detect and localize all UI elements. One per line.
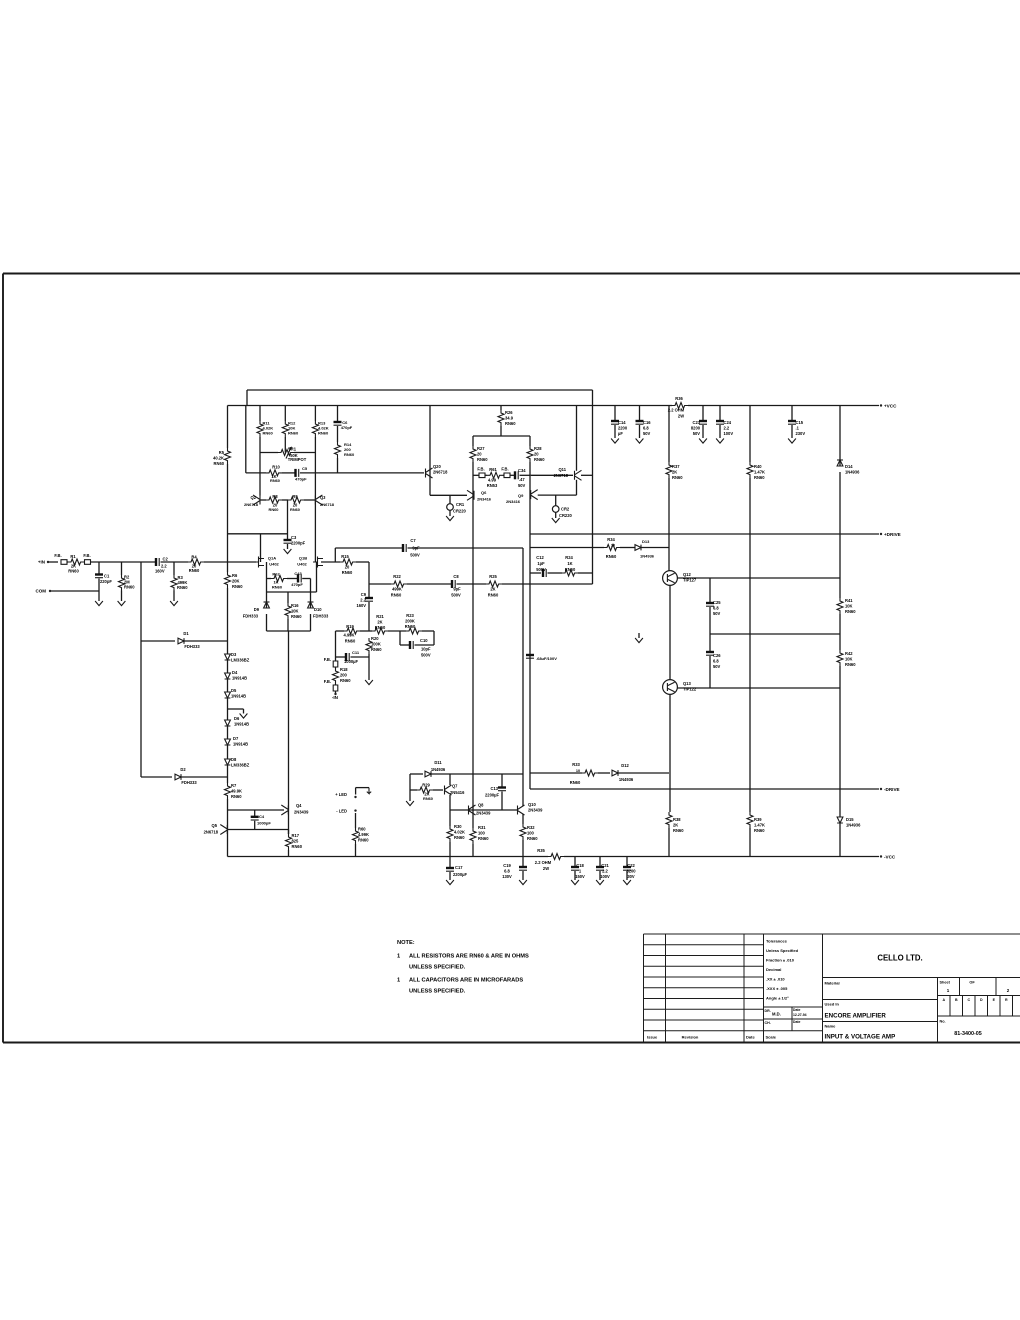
svg-text:2N6718: 2N6718	[244, 502, 259, 507]
svg-text:µF: µF	[618, 431, 623, 436]
svg-text:500V: 500V	[451, 593, 461, 598]
svg-text:RN60: RN60	[845, 609, 856, 614]
svg-text:FDH333: FDH333	[184, 644, 200, 649]
svg-text:470pF: 470pF	[341, 425, 353, 430]
svg-text:500V: 500V	[410, 553, 420, 558]
svg-text:No.: No.	[940, 1020, 946, 1024]
svg-text:2200pF: 2200pF	[291, 541, 306, 546]
svg-text:Q12: Q12	[683, 572, 691, 577]
svg-text:RN60: RN60	[124, 585, 135, 590]
svg-text:.68uF/100V: .68uF/100V	[536, 656, 557, 661]
svg-text:RN53: RN53	[487, 483, 498, 488]
svg-text:Q5: Q5	[212, 823, 218, 828]
svg-text:20: 20	[534, 452, 539, 457]
svg-text:Angle ± 1/2°: Angle ± 1/2°	[766, 996, 789, 1001]
svg-text:1N4936: 1N4936	[846, 823, 861, 828]
svg-text:D12: D12	[621, 763, 629, 768]
svg-text:8200: 8200	[626, 869, 636, 874]
svg-text:150V: 150V	[575, 874, 585, 879]
svg-text:2N6718: 2N6718	[204, 829, 219, 834]
svg-text:R6: R6	[232, 573, 238, 578]
svg-text:R28: R28	[534, 446, 542, 451]
svg-text:D5: D5	[231, 688, 237, 693]
svg-text:D13: D13	[642, 539, 650, 544]
svg-text:500V: 500V	[421, 653, 431, 658]
svg-text:C12: C12	[536, 555, 544, 560]
svg-text:RN60: RN60	[288, 430, 299, 435]
svg-text:R4: R4	[191, 555, 197, 560]
svg-text:OF: OF	[969, 981, 975, 985]
svg-text:100V: 100V	[600, 874, 610, 879]
svg-text:230V: 230V	[796, 431, 806, 436]
svg-text:R21: R21	[376, 614, 384, 619]
svg-text:-IN: -IN	[332, 695, 339, 700]
svg-text:UNLESS SPECIFIED.: UNLESS SPECIFIED.	[409, 965, 466, 971]
svg-text:+IN: +IN	[38, 560, 45, 565]
svg-text:R26: R26	[505, 410, 513, 415]
svg-text:C8: C8	[453, 574, 459, 579]
svg-text:NOTE:: NOTE:	[397, 940, 415, 946]
svg-text:FDH333: FDH333	[243, 614, 259, 619]
svg-text:RN60: RN60	[570, 780, 581, 785]
svg-text:220pF: 220pF	[100, 579, 112, 584]
svg-text:RN60: RN60	[477, 457, 488, 462]
svg-text:D1: D1	[183, 631, 189, 636]
svg-text:Material: Material	[825, 981, 840, 986]
svg-text:49.9K: 49.9K	[231, 789, 242, 794]
svg-text:2N3439: 2N3439	[528, 808, 543, 813]
svg-text:R27: R27	[477, 446, 485, 451]
svg-text:Q1B: Q1B	[299, 556, 307, 561]
svg-text:RN60: RN60	[292, 844, 303, 849]
svg-text:1N4936: 1N4936	[431, 767, 446, 772]
svg-text:1: 1	[579, 869, 582, 874]
svg-text:RN60: RN60	[478, 836, 489, 841]
svg-text:R20: R20	[371, 636, 379, 641]
svg-text:RN60: RN60	[270, 478, 280, 483]
svg-text:.1: .1	[796, 426, 800, 431]
svg-text:Date: Date	[793, 1008, 800, 1012]
svg-text:2N6718: 2N6718	[433, 470, 448, 475]
svg-text:RN60: RN60	[505, 421, 516, 426]
svg-text:1.47K: 1.47K	[754, 823, 765, 828]
svg-text:R23: R23	[406, 613, 414, 618]
svg-text:+VCC: +VCC	[884, 404, 897, 409]
svg-text:C18: C18	[576, 863, 584, 868]
svg-text:-DRIVE: -DRIVE	[884, 787, 900, 792]
svg-text:TRIMPOT: TRIMPOT	[288, 457, 307, 462]
svg-text:RN60: RN60	[269, 507, 279, 512]
svg-text:2W: 2W	[678, 414, 684, 419]
svg-text:Q6: Q6	[481, 490, 487, 495]
svg-text:R9: R9	[292, 494, 298, 499]
svg-text:2N6718: 2N6718	[554, 473, 569, 478]
svg-text:470pF: 470pF	[295, 477, 307, 482]
svg-text:R37: R37	[672, 464, 680, 469]
svg-text:R61: R61	[489, 467, 497, 472]
svg-text:FDH333: FDH333	[181, 780, 197, 785]
svg-text:C26: C26	[713, 653, 721, 658]
svg-text:6.8: 6.8	[713, 606, 719, 611]
svg-text:12-27-94: 12-27-94	[793, 1013, 807, 1017]
svg-text:200K: 200K	[405, 619, 415, 624]
svg-text:R29: R29	[422, 783, 430, 788]
svg-text:1000pF: 1000pF	[257, 820, 271, 825]
svg-text:RN60: RN60	[189, 568, 200, 573]
svg-text:R22: R22	[393, 574, 401, 579]
svg-text:100K: 100K	[371, 642, 381, 647]
svg-text:Q2: Q2	[251, 495, 257, 500]
svg-text:Decimal: Decimal	[766, 967, 781, 972]
svg-text:D2: D2	[180, 767, 186, 772]
svg-text:C23: C23	[692, 420, 700, 425]
svg-text:10: 10	[576, 769, 580, 773]
svg-text:R62: R62	[272, 572, 280, 577]
svg-text:C: C	[967, 998, 970, 1002]
svg-text:R42: R42	[845, 651, 853, 656]
svg-text:6.8: 6.8	[504, 869, 510, 874]
svg-text:Scale: Scale	[766, 1035, 777, 1040]
svg-text:FDH333: FDH333	[313, 614, 329, 619]
svg-text:RN60: RN60	[672, 475, 683, 480]
svg-text:F.B.: F.B.	[324, 679, 331, 684]
svg-text:4.99K: 4.99K	[358, 832, 369, 837]
svg-text:E: E	[993, 998, 996, 1002]
svg-text:RN60: RN60	[214, 461, 225, 466]
svg-text:U402: U402	[297, 562, 307, 567]
svg-text:20K: 20K	[232, 579, 240, 584]
svg-text:20: 20	[477, 452, 482, 457]
svg-text:C22: C22	[627, 863, 635, 868]
svg-text:INPUT & VOLTAGE AMP: INPUT & VOLTAGE AMP	[825, 1034, 896, 1041]
svg-text:RN60: RN60	[272, 585, 283, 590]
svg-text:RN60: RN60	[565, 567, 576, 572]
svg-text:1N4936: 1N4936	[619, 777, 634, 782]
svg-text:C24: C24	[724, 420, 732, 425]
svg-text:RN60: RN60	[454, 835, 465, 840]
svg-text:2.2: 2.2	[724, 426, 730, 431]
svg-text:R60: R60	[358, 827, 366, 832]
svg-text:-VCC: -VCC	[884, 855, 896, 860]
svg-text:10K: 10K	[845, 657, 853, 662]
svg-text:R25: R25	[489, 574, 497, 579]
svg-text:10pF: 10pF	[421, 647, 431, 652]
svg-text:RN60: RN60	[371, 647, 382, 652]
svg-text:10K: 10K	[291, 609, 299, 614]
svg-text:Name: Name	[825, 1024, 837, 1029]
svg-text:R18: R18	[340, 667, 348, 672]
svg-text:1.47K: 1.47K	[754, 470, 765, 475]
svg-text:R36: R36	[675, 396, 683, 401]
svg-text:C21: C21	[601, 863, 609, 868]
svg-text:2200µF: 2200µF	[453, 872, 467, 877]
svg-text:C15: C15	[796, 420, 804, 425]
svg-text:.XX ± .010: .XX ± .010	[766, 977, 785, 982]
svg-text:470pF: 470pF	[291, 582, 303, 587]
svg-text:RN60: RN60	[342, 570, 353, 575]
svg-text:50V: 50V	[713, 664, 721, 669]
svg-text:RN60: RN60	[527, 836, 538, 841]
svg-text:1: 1	[947, 988, 950, 993]
svg-text:RN60: RN60	[423, 796, 433, 801]
svg-text:ALL RESISTORS ARE RN60 & ARE I: ALL RESISTORS ARE RN60 & ARE IN OHMS	[409, 954, 529, 960]
svg-text:LM336BZ: LM336BZ	[231, 763, 250, 768]
svg-text:6.8: 6.8	[713, 659, 719, 664]
svg-text:R24: R24	[565, 555, 573, 560]
svg-text:D4: D4	[232, 670, 238, 675]
svg-text:A: A	[942, 998, 945, 1002]
svg-text:RN60: RN60	[534, 457, 545, 462]
svg-text:Q11: Q11	[558, 467, 566, 472]
svg-text:C19: C19	[503, 863, 511, 868]
svg-text:D14: D14	[845, 464, 853, 469]
svg-text:50V: 50V	[693, 431, 701, 436]
svg-text:RN60: RN60	[231, 794, 242, 799]
svg-text:Date: Date	[793, 1020, 800, 1024]
svg-text:9pF: 9pF	[453, 587, 461, 592]
svg-text:Q8: Q8	[478, 803, 484, 808]
svg-text:R34: R34	[607, 537, 615, 542]
svg-text:R16: R16	[291, 603, 299, 608]
svg-text:TIP122: TIP122	[683, 687, 697, 692]
svg-text:8200: 8200	[691, 426, 701, 431]
svg-text:2.2: 2.2	[360, 598, 366, 603]
svg-text:2.2 OHM: 2.2 OHM	[668, 408, 685, 413]
svg-text:Used In: Used In	[825, 1002, 840, 1007]
svg-text:F.B.: F.B.	[324, 657, 331, 662]
svg-text:R32: R32	[527, 825, 535, 830]
svg-text:160V: 160V	[155, 569, 165, 574]
svg-text:1N914B: 1N914B	[231, 694, 246, 699]
svg-text:RN60: RN60	[358, 838, 369, 843]
svg-text:D11: D11	[434, 760, 442, 765]
svg-text:C3: C3	[291, 535, 297, 540]
svg-text:1: 1	[397, 978, 400, 984]
svg-text:C2: C2	[163, 557, 169, 562]
svg-text:D9: D9	[254, 607, 260, 612]
svg-text:RN60: RN60	[673, 828, 684, 833]
svg-text:RN60: RN60	[263, 430, 274, 435]
svg-text:COM: COM	[36, 589, 47, 594]
svg-text:2N3439: 2N3439	[476, 811, 491, 816]
svg-text:D7: D7	[233, 736, 239, 741]
svg-text:C25: C25	[713, 600, 721, 605]
svg-text:81-3400-05: 81-3400-05	[954, 1031, 982, 1037]
svg-text:1pF: 1pF	[537, 561, 545, 566]
svg-text:R5: R5	[219, 450, 225, 455]
svg-text:D10: D10	[314, 607, 322, 612]
svg-text:R31: R31	[478, 825, 486, 830]
svg-text:Unless Specified: Unless Specified	[766, 948, 799, 953]
svg-text:Q1A: Q1A	[268, 556, 276, 561]
svg-text:Issue: Issue	[647, 1035, 658, 1040]
svg-text:R35: R35	[537, 848, 545, 853]
svg-text:CR2: CR2	[561, 507, 570, 512]
svg-text:1000µF: 1000µF	[344, 659, 358, 664]
svg-text:CR220: CR220	[453, 509, 466, 514]
svg-text:RN60: RN60	[391, 593, 402, 598]
svg-text:2K: 2K	[490, 587, 495, 592]
svg-text:2.2 OHM: 2.2 OHM	[535, 860, 552, 865]
svg-text:DR.: DR.	[765, 1009, 771, 1013]
svg-text:ENCORE AMPLIFIER: ENCORE AMPLIFIER	[825, 1013, 887, 1020]
svg-text:RN60: RN60	[232, 584, 243, 589]
svg-text:Fraction ± .010: Fraction ± .010	[766, 958, 795, 963]
svg-text:500V: 500V	[536, 567, 546, 572]
svg-text:R17: R17	[292, 833, 300, 838]
svg-text:Tolerances: Tolerances	[766, 939, 788, 944]
svg-text:9pF: 9pF	[412, 546, 420, 551]
svg-text:825: 825	[292, 839, 300, 844]
svg-text:130V: 130V	[502, 874, 512, 879]
svg-text:RN60: RN60	[375, 625, 386, 630]
svg-text:10: 10	[611, 544, 615, 548]
svg-text:TIP127: TIP127	[683, 578, 697, 583]
svg-text:RN60: RN60	[318, 430, 329, 435]
svg-text:2.2: 2.2	[602, 869, 608, 874]
svg-text:.XXX ± .005: .XXX ± .005	[766, 986, 788, 991]
svg-text:200: 200	[340, 673, 348, 678]
svg-text:R40: R40	[754, 464, 762, 469]
svg-text:RN60: RN60	[344, 452, 355, 457]
svg-text:1N914B: 1N914B	[233, 742, 248, 747]
svg-text:R1: R1	[70, 554, 76, 559]
svg-text:CELLO LTD.: CELLO LTD.	[877, 954, 922, 963]
svg-text:RN60: RN60	[845, 662, 856, 667]
svg-text:F.B.: F.B.	[54, 553, 61, 558]
svg-text:LM336BZ: LM336BZ	[231, 658, 250, 663]
svg-text:CH.: CH.	[765, 1021, 771, 1025]
svg-text:2N6718: 2N6718	[320, 502, 335, 507]
svg-text:R: R	[1005, 998, 1008, 1002]
svg-text:RN60: RN60	[345, 639, 356, 644]
svg-text:40.2K: 40.2K	[213, 456, 224, 461]
svg-text:Q3: Q3	[320, 495, 326, 500]
svg-text:2200µF: 2200µF	[485, 793, 499, 798]
svg-text:F.B.: F.B.	[83, 553, 90, 558]
svg-text:R19: R19	[346, 624, 354, 629]
svg-text:Date: Date	[746, 1035, 755, 1040]
svg-text:R8: R8	[272, 494, 278, 499]
svg-text:C17: C17	[455, 865, 463, 870]
svg-text:D3: D3	[231, 652, 237, 657]
svg-text:C1: C1	[104, 574, 110, 579]
svg-text:2K: 2K	[377, 620, 382, 625]
svg-text:CR220: CR220	[559, 513, 572, 518]
svg-text:50V: 50V	[518, 483, 526, 488]
svg-text:10K: 10K	[845, 604, 853, 609]
svg-text:C34: C34	[518, 468, 526, 473]
svg-text:100: 100	[478, 831, 486, 836]
svg-text:1N4936: 1N4936	[845, 470, 860, 475]
svg-text:C14: C14	[618, 420, 626, 425]
svg-text:RN60: RN60	[291, 614, 302, 619]
svg-text:R39: R39	[754, 817, 762, 822]
svg-text:F.B.: F.B.	[477, 467, 484, 472]
svg-text:C16: C16	[643, 420, 651, 425]
svg-text:160V: 160V	[356, 603, 366, 608]
svg-text:R7: R7	[231, 783, 237, 788]
svg-text:F.B.: F.B.	[501, 467, 508, 472]
svg-text:RN60: RN60	[754, 828, 765, 833]
svg-text:Q4: Q4	[296, 803, 302, 808]
svg-text:Q7: Q7	[452, 784, 458, 789]
svg-text:D8: D8	[231, 757, 237, 762]
svg-text:RN60: RN60	[68, 569, 79, 574]
svg-text:20: 20	[345, 565, 350, 570]
svg-text:Q13: Q13	[683, 681, 691, 686]
svg-text:1N914B: 1N914B	[234, 722, 249, 727]
svg-text:1N4936: 1N4936	[640, 554, 655, 559]
svg-text:UNLESS SPECIFIED.: UNLESS SPECIFIED.	[409, 989, 466, 995]
svg-text:R33: R33	[572, 762, 580, 767]
svg-text:RN60: RN60	[488, 593, 499, 598]
svg-text:ALL CAPACITORS ARE IN MICROFAR: ALL CAPACITORS ARE IN MICROFARADS	[409, 978, 523, 984]
svg-text:Q20: Q20	[433, 464, 441, 469]
svg-text:30V: 30V	[627, 874, 635, 879]
svg-text:C43: C43	[294, 571, 302, 576]
svg-text:C11: C11	[352, 650, 360, 655]
svg-text:+DRIVE: +DRIVE	[884, 532, 901, 537]
svg-text:2: 2	[1007, 988, 1010, 993]
svg-text:2N3416: 2N3416	[477, 497, 492, 502]
svg-text:100: 100	[527, 831, 535, 836]
svg-text:C13: C13	[490, 786, 498, 791]
svg-text:Revision: Revision	[682, 1035, 699, 1040]
svg-text:RN60: RN60	[340, 678, 351, 683]
svg-text:U402: U402	[269, 562, 279, 567]
svg-text:2N5416: 2N5416	[450, 790, 465, 795]
svg-text:- LED: - LED	[336, 809, 347, 814]
svg-text:RN60: RN60	[405, 624, 416, 629]
svg-text:4.99K: 4.99K	[344, 633, 355, 638]
svg-text:1N914B: 1N914B	[232, 676, 247, 681]
svg-text:C10: C10	[420, 638, 428, 643]
svg-text:+ LED: + LED	[335, 792, 347, 797]
svg-text:RN60: RN60	[290, 507, 300, 512]
svg-text:CR1: CR1	[456, 502, 465, 507]
svg-text:50V: 50V	[643, 431, 651, 436]
svg-text:6.8: 6.8	[643, 426, 649, 431]
svg-text:.47: .47	[519, 477, 525, 482]
svg-text:34.9: 34.9	[505, 416, 514, 421]
svg-text:2N3439: 2N3439	[294, 810, 309, 815]
svg-text:Sheet: Sheet	[940, 981, 951, 985]
svg-text:2K: 2K	[673, 823, 678, 828]
svg-text:C5: C5	[302, 466, 308, 471]
svg-text:2W: 2W	[543, 866, 549, 871]
svg-text:R30: R30	[454, 824, 462, 829]
svg-text:C9: C9	[361, 592, 367, 597]
svg-text:R15: R15	[341, 554, 349, 559]
svg-text:R10: R10	[272, 464, 280, 469]
svg-text:R38: R38	[673, 817, 681, 822]
svg-text:C7: C7	[410, 538, 416, 543]
svg-text:D15: D15	[846, 817, 854, 822]
svg-text:499K: 499K	[392, 587, 402, 592]
svg-text:VR1: VR1	[288, 447, 297, 452]
svg-text:2K: 2K	[672, 470, 677, 475]
svg-text:M.D.: M.D.	[772, 1012, 781, 1017]
svg-text:2200: 2200	[618, 426, 628, 431]
svg-text:Q10: Q10	[528, 802, 536, 807]
svg-text:1K: 1K	[567, 561, 572, 566]
svg-text:1: 1	[397, 954, 400, 960]
svg-text:2N3416: 2N3416	[506, 499, 521, 504]
svg-text:D6: D6	[234, 716, 240, 721]
svg-text:4.02K: 4.02K	[454, 830, 465, 835]
svg-text:R41: R41	[845, 598, 853, 603]
